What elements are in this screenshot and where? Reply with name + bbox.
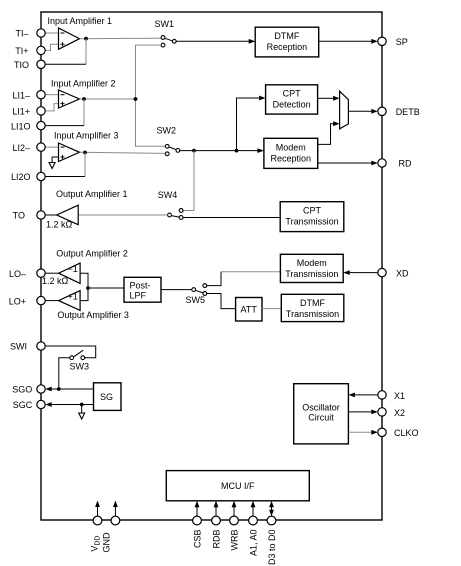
svg-text:Modem: Modem bbox=[276, 143, 306, 153]
svg-text:LI2–: LI2– bbox=[12, 143, 30, 153]
svg-text:Transmission: Transmission bbox=[285, 217, 338, 227]
svg-text:DTMF: DTMF bbox=[274, 31, 299, 41]
svg-text:SP: SP bbox=[396, 37, 408, 47]
pin RD bbox=[378, 159, 386, 167]
svg-text:SW5: SW5 bbox=[186, 295, 206, 305]
pin A1,A0 bbox=[249, 516, 258, 525]
svg-text:Circuit: Circuit bbox=[308, 413, 334, 423]
wire LO+ bbox=[45, 300, 59, 302]
svg-text:SWI: SWI bbox=[10, 342, 27, 352]
wire SW4 to out amp1 bbox=[78, 214, 167, 216]
op-amp U3 Input Amplifier 3 bbox=[59, 143, 80, 162]
wire A1,A0 arrow bbox=[252, 505, 254, 516]
wire X1 to oscillator bbox=[355, 394, 378, 396]
svg-text:Output Amplifier 3: Output Amplifier 3 bbox=[57, 310, 129, 320]
mux selector bbox=[340, 91, 349, 129]
wire VDD arrow bbox=[97, 505, 99, 516]
pin LI1- bbox=[37, 91, 45, 99]
wire XD to Modem Transmission bbox=[350, 272, 378, 274]
svg-text:CLKO: CLKO bbox=[394, 428, 419, 438]
block Modem Transmission bbox=[280, 254, 343, 282]
wire to Post-LPF bbox=[88, 287, 124, 289]
wire mux to DETB bbox=[348, 110, 371, 112]
wire LI1- input bbox=[45, 94, 59, 96]
node SW2-SW4 tap bbox=[192, 149, 196, 153]
op-amp U2 Input Amplifier 2 bbox=[59, 90, 80, 108]
svg-text:X2: X2 bbox=[394, 408, 405, 418]
wire Modem Reception to RD bbox=[318, 162, 372, 164]
pin LI2- bbox=[37, 143, 45, 151]
svg-text:LO–: LO– bbox=[9, 269, 26, 279]
wire WRB arrow bbox=[233, 505, 235, 516]
svg-text:LI1O: LI1O bbox=[11, 121, 31, 131]
pin SWI bbox=[37, 342, 45, 350]
svg-text:Input Amplifier 2: Input Amplifier 2 bbox=[51, 79, 116, 89]
svg-text:1.2 kΩ: 1.2 kΩ bbox=[46, 220, 73, 230]
pin LO- bbox=[37, 269, 45, 277]
svg-text:A1, A0: A1, A0 bbox=[249, 530, 259, 557]
node amp3 out bbox=[83, 151, 87, 155]
wire TI+ input bbox=[45, 44, 59, 50]
pin SGC bbox=[37, 400, 45, 408]
wire RDB arrow bbox=[215, 505, 217, 516]
wire amp1 feedback bbox=[85, 39, 87, 65]
svg-text:Transmission: Transmission bbox=[286, 309, 339, 319]
block Post-LPF bbox=[124, 277, 161, 302]
wire TO bbox=[45, 214, 57, 216]
wire SWI to SW3 bbox=[45, 346, 96, 358]
node SGC ref tap bbox=[80, 403, 84, 407]
pin VDD bbox=[93, 516, 102, 525]
block CPT Detection bbox=[266, 85, 318, 114]
wire SW1 lower feed bbox=[136, 45, 166, 146]
pin SGO bbox=[37, 385, 45, 393]
svg-text:X1: X1 bbox=[394, 391, 405, 401]
block CPT Transmission bbox=[280, 202, 344, 232]
pin TI- bbox=[37, 29, 45, 37]
svg-text:D3 to D0: D3 to D0 bbox=[267, 530, 277, 566]
svg-text:LI2O: LI2O bbox=[11, 172, 31, 182]
pin WRB bbox=[230, 516, 239, 525]
svg-text:Output Amplifier 2: Output Amplifier 2 bbox=[56, 249, 128, 259]
switch SW3 bbox=[81, 356, 85, 360]
svg-text:Reception: Reception bbox=[271, 154, 312, 164]
svg-text:LI1–: LI1– bbox=[12, 90, 30, 100]
svg-text:Reception: Reception bbox=[267, 42, 308, 52]
wire amp3 output bbox=[80, 152, 165, 153]
svg-text:CPT: CPT bbox=[283, 89, 302, 99]
wire LI2- input bbox=[45, 146, 59, 148]
pin D3-D0 bbox=[267, 516, 276, 525]
wire GND arrow bbox=[114, 505, 116, 516]
wire ATT to DTMF Transmission bbox=[262, 308, 281, 310]
wire SW5 to Modem Transmission bbox=[207, 272, 221, 286]
svg-text:Post-: Post- bbox=[130, 281, 151, 291]
wire D3-D0 double arrow bbox=[271, 507, 273, 512]
wire SG to SGC bbox=[52, 404, 94, 406]
svg-text:Input Amplifier 1: Input Amplifier 1 bbox=[48, 16, 113, 26]
wire amp3 feedback bbox=[84, 153, 86, 177]
node CPT det tap bbox=[235, 149, 239, 153]
wire amp3 plus ref bbox=[52, 157, 58, 163]
svg-text:SW3: SW3 bbox=[70, 362, 90, 372]
svg-text:Oscillator: Oscillator bbox=[302, 403, 340, 413]
svg-text:−1: −1 bbox=[68, 264, 78, 274]
wire SW1 to DTMF Reception bbox=[176, 40, 249, 42]
ref symbol SGC bbox=[79, 413, 85, 419]
svg-text:GND: GND bbox=[102, 532, 112, 553]
wire SW5 to ATT bbox=[207, 294, 236, 309]
wire CSB arrow bbox=[196, 505, 198, 516]
svg-text:SW1: SW1 bbox=[155, 19, 175, 29]
wire Post-LPF to SW5 bbox=[161, 289, 192, 291]
wire LI1+ input bbox=[45, 104, 59, 111]
svg-text:DETB: DETB bbox=[396, 107, 420, 117]
node SW3-SGO bbox=[57, 387, 61, 391]
wire to CPT Detection bbox=[237, 98, 260, 151]
svg-text:DTMF: DTMF bbox=[300, 298, 325, 308]
svg-text:LI1+: LI1+ bbox=[12, 107, 30, 117]
svg-text:SG: SG bbox=[100, 392, 113, 402]
pin LI1O bbox=[37, 121, 45, 129]
svg-text:Transmission: Transmission bbox=[285, 269, 338, 279]
pin LO+ bbox=[37, 296, 45, 304]
wire SW4 to CPT Transmission bbox=[183, 217, 280, 219]
wire TI- input bbox=[45, 32, 59, 34]
svg-text:SW2: SW2 bbox=[157, 126, 177, 136]
pin TO bbox=[37, 211, 45, 219]
wire Modem Reception to mux bbox=[318, 124, 334, 145]
svg-text:LPF: LPF bbox=[130, 291, 147, 301]
pin GND bbox=[111, 516, 120, 525]
svg-text:TIO: TIO bbox=[14, 60, 29, 70]
svg-text:+1: +1 bbox=[68, 292, 78, 302]
pin X1 bbox=[378, 391, 386, 399]
pin LI1+ bbox=[37, 107, 45, 115]
wire SW3 to SGO line bbox=[59, 358, 70, 389]
pin RDB bbox=[212, 516, 221, 525]
wire oscillator to X2 bbox=[348, 411, 371, 413]
wire amp2/3 join bbox=[80, 273, 88, 300]
pin TI+ bbox=[37, 46, 45, 54]
block SG bbox=[94, 383, 122, 411]
svg-text:WRB: WRB bbox=[230, 530, 240, 551]
svg-text:RDB: RDB bbox=[212, 530, 222, 549]
pin X2 bbox=[378, 408, 386, 416]
svg-text:Input Amplifier 3: Input Amplifier 3 bbox=[54, 131, 119, 141]
svg-text:TO: TO bbox=[13, 211, 25, 221]
node riser-amp2 bbox=[134, 97, 138, 101]
block MCU I/F bbox=[166, 471, 309, 501]
svg-text:SW4: SW4 bbox=[158, 190, 178, 200]
wire amp2 output bbox=[80, 98, 136, 100]
wire SW2 to Modem Reception bbox=[180, 150, 258, 152]
pin CSB bbox=[193, 516, 202, 525]
block DTMF Reception bbox=[255, 27, 319, 57]
wire SG to SGO bbox=[52, 388, 94, 390]
wire oscillator to CLKO bbox=[348, 431, 371, 433]
ref symbol amp3 bbox=[49, 163, 55, 169]
block Oscillator Circuit bbox=[294, 384, 349, 444]
wire amp1 output bbox=[80, 37, 161, 40]
block Modem Reception bbox=[264, 138, 318, 168]
svg-text:Output Amplifier 1: Output Amplifier 1 bbox=[56, 189, 128, 199]
wire DTMF Reception to SP bbox=[319, 40, 372, 42]
wire LO- bbox=[45, 272, 59, 274]
svg-text:TI+: TI+ bbox=[15, 46, 28, 56]
block ATT bbox=[236, 298, 262, 322]
block DTMF Transmission bbox=[281, 294, 344, 321]
svg-text:RD: RD bbox=[399, 159, 412, 169]
node LO join bbox=[86, 286, 90, 290]
pin XD bbox=[378, 268, 386, 276]
svg-text:Detection: Detection bbox=[273, 100, 311, 110]
svg-text:XD: XD bbox=[396, 268, 409, 278]
svg-text:SGC: SGC bbox=[13, 400, 33, 410]
svg-text:Modem: Modem bbox=[297, 258, 327, 268]
svg-text:TI–: TI– bbox=[15, 29, 28, 39]
op-amp U1 Input Amplifier 1 bbox=[59, 28, 80, 49]
wire SW2 to SW4 bbox=[183, 151, 194, 211]
svg-text:ATT: ATT bbox=[241, 305, 258, 315]
pin TIO bbox=[37, 60, 45, 68]
node amp2 out bbox=[82, 97, 86, 101]
node amp1 out bbox=[84, 37, 88, 41]
wire CPT Detection to mux bbox=[318, 97, 334, 99]
svg-text:MCU I/F: MCU I/F bbox=[221, 481, 255, 491]
pin SP bbox=[378, 37, 386, 45]
svg-text:SGO: SGO bbox=[12, 385, 32, 395]
svg-text:CPT: CPT bbox=[303, 206, 322, 216]
pin CLKO bbox=[378, 428, 386, 436]
pin LI2O bbox=[37, 172, 45, 180]
wire amp2 feedback bbox=[83, 99, 85, 126]
chip outline bbox=[41, 12, 382, 520]
svg-text:CSB: CSB bbox=[193, 530, 203, 549]
svg-text:1.2 kΩ: 1.2 kΩ bbox=[42, 276, 69, 286]
svg-text:LO+: LO+ bbox=[9, 296, 26, 306]
wire SGC ref bbox=[81, 405, 83, 414]
pin DETB bbox=[378, 107, 386, 115]
